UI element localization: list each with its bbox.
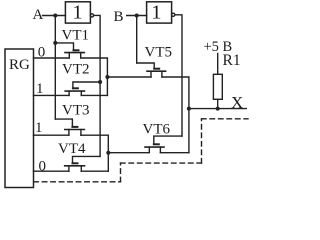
svg-text:1: 1	[35, 120, 43, 136]
svg-text:1: 1	[72, 2, 82, 24]
wire VT2 gate lead	[73, 82, 100, 88]
inverter U2 bubble	[172, 13, 175, 16]
svg-text:VT1: VT1	[62, 28, 90, 44]
wire VT6 source lead	[108, 152, 149, 154]
svg-text:VT6: VT6	[143, 121, 171, 137]
dashed feedback path bottom segment	[34, 181, 121, 183]
svg-text:0: 0	[39, 159, 47, 175]
transistor VT2	[65, 88, 84, 95]
svg-text:R1: R1	[223, 52, 241, 69]
wire inverter U2 output	[175, 15, 182, 136]
svg-text:VT3: VT3	[62, 103, 90, 119]
svg-text:VT5: VT5	[145, 44, 173, 60]
node VT5 source tap	[105, 75, 109, 79]
inverter U1 box	[65, 2, 90, 23]
transistor VT1	[65, 50, 84, 58]
node VT6 source tap	[106, 151, 110, 155]
wire row 4 (RG output 0 to VT4 source)	[34, 170, 69, 172]
wire VT4 drain to V3 bus	[81, 170, 108, 172]
wire VT5 gate lead	[137, 63, 155, 68]
wire A bus vertical	[54, 16, 56, 120]
wire row 1 (RG output 0 to VT1 source)	[34, 57, 70, 59]
transistor VT6	[145, 144, 164, 152]
wire VT3 gate lead	[55, 119, 72, 126]
inverter U1 bubble	[90, 14, 93, 17]
svg-text:RG: RG	[9, 57, 30, 73]
transistor VT3	[65, 127, 85, 135]
dashed feedback path right riser	[201, 119, 203, 163]
node output bus on X line	[187, 107, 191, 111]
wire VT3 drain to V3 bus	[81, 135, 108, 171]
wire input A	[43, 15, 66, 17]
transistor VT5	[147, 69, 166, 77]
svg-text:Х: Х	[231, 93, 243, 112]
svg-text:VT2: VT2	[62, 62, 90, 78]
resistor R1	[213, 54, 222, 109]
node B junction	[135, 14, 139, 18]
svg-text:B: B	[114, 9, 124, 25]
wire VT4 gate lead	[73, 156, 101, 162]
wire input B	[127, 15, 147, 17]
transistor VT4	[65, 163, 85, 171]
svg-text:1: 1	[36, 81, 44, 97]
wire row 3 (RG output 1 to VT3 source)	[34, 134, 69, 136]
node VT2 gate tap on A-bar bus	[98, 80, 102, 84]
node R1 bottom junction	[216, 107, 220, 111]
svg-text:0: 0	[38, 45, 46, 61]
svg-text:1: 1	[151, 2, 161, 24]
wire VT1 gate lead	[55, 43, 73, 50]
dashed feedback path top segment	[202, 118, 249, 120]
wire VT5 source lead	[107, 76, 151, 78]
register RG box	[5, 49, 34, 188]
dashed feedback path middle segment	[121, 162, 202, 164]
wire inverter U1 output	[94, 15, 101, 156]
wire B bus vertical	[136, 16, 138, 64]
svg-text:A: A	[33, 7, 44, 23]
dashed feedback path left riser	[120, 163, 122, 182]
wire X output line	[189, 108, 246, 110]
wire VT1 drain to V1 bus	[81, 58, 108, 95]
wire VT2 drain to V1 bus	[81, 94, 107, 96]
svg-text:VT4: VT4	[58, 141, 86, 157]
wire VT5 drain to output bus	[162, 77, 189, 153]
wire VT6 drain to output bus	[160, 152, 189, 154]
node A gate tap VT1	[53, 41, 57, 45]
node A junction	[53, 14, 57, 18]
wire VT6 gate lead	[154, 136, 182, 144]
wire row 2 (RG output 1 to VT2 source)	[34, 94, 70, 96]
inverter U2 box	[147, 2, 172, 23]
